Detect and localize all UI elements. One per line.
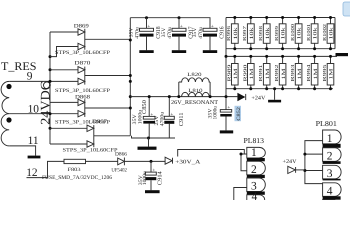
svg-text:2: 2 [251, 164, 257, 176]
resistor R989 [226, 56, 239, 88]
resistor R997 [242, 18, 255, 49]
24VDC bus vertical [49, 32, 51, 144]
PL813 pin3 wire [234, 188, 247, 201]
svg-text:+: + [170, 113, 175, 116]
24VDC power port circle [44, 82, 51, 89]
transformer winding 1 (pins 9-10) [1, 81, 9, 113]
PL801 separator bar 2 [323, 161, 341, 164]
svg-text:+: + [211, 25, 216, 28]
vertical link bus x=226 [225, 18, 227, 110]
svg-text:STPS_3P_10L60CFP: STPS_3P_10L60CFP [55, 88, 110, 94]
svg-text:D870: D870 [74, 60, 90, 66]
svg-text:R995: R995 [322, 63, 327, 81]
svg-text:1M: 1M [329, 68, 335, 80]
svg-text:35V: 35V [192, 27, 198, 37]
PL801 separator bar 3 [323, 179, 341, 181]
svg-text:R991: R991 [258, 63, 263, 81]
svg-text:2: 2 [327, 150, 333, 162]
anode wire D869 bottom [50, 47, 78, 57]
resistor R996 [226, 18, 239, 49]
svg-text:10k: 10k [281, 27, 287, 40]
svg-text:R989: R989 [226, 63, 231, 81]
capacitor C911 [154, 97, 185, 138]
svg-text:470u: 470u [198, 27, 204, 39]
PL813 separator bar 2 [247, 175, 265, 178]
ground bottom bus [148, 138, 150, 147]
svg-text:+: + [180, 25, 185, 28]
capacitor C918 [129, 18, 163, 51]
svg-text:10k: 10k [297, 27, 303, 40]
svg-text:R993: R993 [290, 63, 295, 81]
connector PL801 pin 3 [323, 165, 341, 180]
svg-text:4: 4 [252, 191, 258, 200]
capacitor C917 [161, 18, 195, 51]
output wire D870 [85, 75, 131, 77]
fuse F803 [64, 159, 86, 173]
svg-text:R996: R996 [226, 25, 231, 41]
svg-text:C911: C911 [179, 113, 185, 127]
ground C852 [220, 130, 233, 133]
svg-text:D867: D867 [92, 119, 107, 125]
connector PL813 pin 2 [247, 161, 265, 176]
resistor R990 [242, 56, 255, 88]
svg-text:STPS_3P_10L60CFP: STPS_3P_10L60CFP [55, 50, 110, 56]
resistor R1002 [322, 18, 335, 49]
ground C918 [139, 50, 153, 53]
svg-text:D866: D866 [115, 152, 127, 158]
PL801 pin 5 top (clipped) [323, 199, 335, 202]
bus junction dots [49, 55, 52, 58]
svg-text:R1000: R1000 [290, 23, 295, 41]
svg-text:26V_RESONANT: 26V_RESONANT [171, 100, 219, 106]
PL813 feed wires [241, 154, 247, 171]
10k row top bus [226, 17, 335, 19]
svg-text:PL813: PL813 [244, 136, 265, 145]
overhead wire to PL813 [178, 150, 245, 157]
diode pair D869 [78, 29, 85, 50]
svg-text:3: 3 [327, 168, 333, 180]
wire D866 to arrow [124, 160, 165, 162]
svg-text:1M: 1M [297, 68, 303, 80]
svg-text:+: + [150, 113, 155, 116]
diode pair D867 [87, 125, 94, 147]
output wire D867 [94, 135, 131, 137]
capacitor C914 [138, 161, 163, 190]
capacitor C850 [132, 97, 155, 138]
resistor R1001 [306, 18, 319, 49]
svg-text:+24V: +24V [251, 96, 265, 102]
svg-text:1: 1 [327, 133, 333, 145]
svg-text:10k: 10k [233, 27, 239, 40]
inductor L810 [182, 88, 210, 96]
svg-text:F803: F803 [68, 167, 82, 173]
svg-text:470u: 470u [135, 27, 141, 39]
svg-text:4700u: 4700u [159, 111, 165, 126]
resistor R999 [274, 18, 287, 49]
svg-text:R990: R990 [242, 63, 247, 81]
wire pin 11 to ground [9, 146, 35, 156]
anode wire D868 top [50, 101, 78, 103]
PL801 separator bar 1 [323, 144, 341, 148]
svg-text:+: + [153, 168, 158, 171]
resistor R991 [258, 56, 271, 88]
svg-text:+24V: +24V [283, 159, 297, 165]
svg-text:C850: C850 [142, 100, 148, 114]
ground bar right of 1M top bus [336, 53, 349, 56]
svg-text:+: + [227, 106, 232, 109]
svg-text:UF5402: UF5402 [111, 167, 127, 173]
svg-text:R1002: R1002 [322, 23, 327, 41]
connector PL813 pin 4 (clipped) [247, 191, 265, 203]
PL801 separator bar 4 [323, 196, 341, 199]
svg-text:STPS_3P_10L60CFP: STPS_3P_10L60CFP [63, 147, 118, 153]
ground pin 11 [28, 156, 41, 159]
ground C914 [145, 190, 160, 193]
1M row bottom bus [226, 88, 333, 90]
svg-text:4: 4 [327, 185, 333, 197]
diode pair D870 [78, 67, 85, 85]
+24V power arrow (resonant) [237, 93, 265, 102]
output wire D869 [85, 38, 131, 40]
anode wire D869 top [50, 31, 78, 33]
svg-text:1: 1 [251, 147, 257, 159]
svg-text:C852: C852 [236, 106, 242, 120]
svg-text:R999: R999 [274, 25, 279, 41]
svg-text:R992: R992 [274, 63, 279, 81]
connector PL813 pin 1 [247, 147, 265, 159]
PL813 separator bar 3 [247, 192, 265, 195]
resistor R995 [322, 56, 335, 88]
output wire D868 [85, 107, 131, 109]
diode pair D868 [78, 99, 85, 117]
resistor R992 [274, 56, 287, 88]
svg-text:35V: 35V [161, 27, 167, 37]
svg-text:D869: D869 [74, 23, 89, 29]
PL801 bracket [305, 141, 323, 184]
svg-text:1M: 1M [265, 68, 271, 80]
svg-text:1000u: 1000u [213, 106, 219, 120]
polarity dot winding1 [6, 84, 11, 89]
svg-text:C916: C916 [220, 26, 226, 38]
resistor R998 [258, 18, 271, 49]
svg-text:10k: 10k [249, 27, 255, 40]
svg-text:FUSE_SMD_7A/32VDC_1206: FUSE_SMD_7A/32VDC_1206 [42, 175, 112, 181]
svg-text:R1001: R1001 [306, 23, 311, 41]
svg-text:+30V_A: +30V_A [175, 159, 200, 165]
svg-text:10k: 10k [265, 27, 271, 40]
svg-text:10k: 10k [329, 27, 335, 40]
svg-text:1M: 1M [233, 68, 239, 80]
+24V power arrow (PL801) [283, 159, 305, 174]
svg-text:+: + [148, 25, 153, 28]
connector PL801 pin 4 [323, 183, 341, 198]
svg-text:1M: 1M [281, 68, 287, 80]
blue highlight box top right [343, 2, 350, 16]
svg-text:PL801: PL801 [316, 119, 338, 128]
connector PL801 pin 1 [323, 130, 341, 145]
resistor R1000 [290, 18, 303, 49]
connector PL813 pin 3 [247, 178, 265, 193]
wire fuse to D866 [86, 160, 118, 162]
svg-text:R998: R998 [258, 25, 263, 41]
svg-text:C914: C914 [157, 171, 163, 185]
svg-text:1000u: 1000u [142, 171, 148, 186]
ground C917 [172, 50, 186, 53]
main rail vertical [129, 18, 131, 136]
+30V_A power arrow [165, 157, 200, 165]
svg-text:10k: 10k [313, 27, 319, 40]
inductor bracket verticals [179, 82, 210, 97]
26V_RESONANT wire [130, 96, 237, 98]
rail junction dots [129, 39, 132, 42]
ground C916 [203, 50, 217, 53]
svg-text:1M: 1M [313, 68, 319, 80]
inductor L820 [179, 72, 210, 82]
diode D866 [111, 152, 127, 174]
capacitor C916 [192, 25, 226, 51]
wire pin 10 [9, 113, 78, 115]
1M row top bus [226, 55, 337, 57]
anode wire D870 top [50, 69, 78, 71]
wire pin 12 [27, 161, 65, 177]
svg-text:1M: 1M [249, 68, 255, 80]
10k row bottom bus [226, 48, 335, 50]
cap top bus [130, 18, 210, 29]
anode wire D867 top [50, 127, 87, 129]
resistor R993 [290, 56, 303, 88]
bottom bus [132, 136, 176, 138]
anode wire D867 bottom [50, 143, 87, 145]
svg-text:R997: R997 [242, 25, 247, 41]
PL813 separator bar 1 [247, 158, 265, 161]
right vertical link [334, 18, 336, 49]
svg-text:35V: 35V [129, 27, 135, 37]
capacitor C852 [207, 106, 242, 131]
resistor R994 [306, 56, 319, 88]
connector PL801 pin 2 [323, 148, 341, 163]
svg-text:9: 9 [27, 71, 33, 83]
polarity dot winding2 [6, 117, 11, 122]
svg-text:R994: R994 [306, 63, 311, 81]
ground on 1M bottom bus [274, 89, 276, 100]
svg-text:12: 12 [26, 167, 38, 179]
transformer winding 2 (pins 10-11) [1, 114, 9, 146]
svg-text:L820: L820 [187, 72, 202, 78]
svg-text:470u: 470u [167, 27, 173, 39]
svg-text:11: 11 [28, 135, 39, 147]
svg-text:D868: D868 [75, 95, 90, 101]
wire pin 9 [9, 80, 78, 82]
